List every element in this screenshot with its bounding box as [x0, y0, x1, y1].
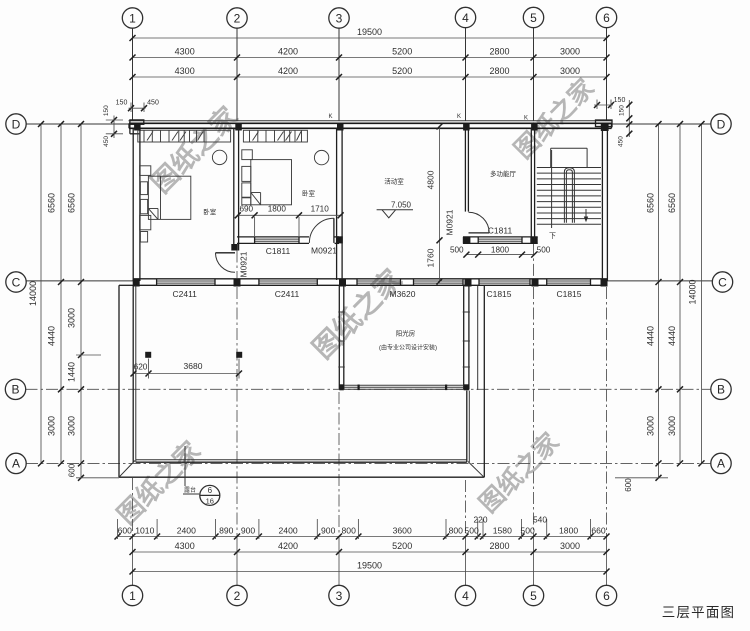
column at grid 3/D [337, 124, 344, 131]
grid line 3 (bottom, dash-dot) [338, 392, 340, 537]
window C2411 #1 on wall C [157, 280, 215, 282]
grid bubble 1 bottom [122, 585, 142, 605]
bedside cabinets bedroom 1 [140, 166, 151, 176]
svg-text:3000: 3000 [560, 66, 580, 76]
wall at grid 5 (hall / stairs) [530, 128, 532, 243]
svg-text:1440: 1440 [67, 362, 77, 382]
svg-text:6: 6 [603, 589, 610, 603]
svg-text:1580: 1580 [493, 526, 512, 536]
column at grid 4/D [463, 124, 470, 131]
svg-text:阳光房: 阳光房 [396, 329, 416, 338]
wall at grid 1 (left exterior) [132, 128, 134, 281]
svg-text:600: 600 [68, 463, 77, 477]
terrace corner miter SE [468, 462, 484, 478]
svg-text:3600: 3600 [393, 526, 412, 536]
svg-text:6560: 6560 [67, 193, 77, 213]
svg-text:三层平面图: 三层平面图 [662, 605, 736, 620]
svg-text:1710: 1710 [311, 205, 330, 214]
svg-text:卧室: 卧室 [203, 207, 217, 216]
svg-text:1800: 1800 [491, 245, 510, 254]
svg-text:A: A [717, 457, 725, 471]
svg-text:4440: 4440 [646, 326, 656, 346]
grid bubble 3 bottom [329, 585, 349, 605]
svg-text:C: C [718, 275, 727, 289]
svg-text:M0921: M0921 [445, 209, 455, 235]
svg-text:3000: 3000 [67, 308, 77, 328]
svg-text:4440: 4440 [667, 326, 677, 346]
svg-text:C: C [12, 275, 21, 289]
svg-text:4200: 4200 [278, 541, 298, 551]
svg-text:2800: 2800 [489, 66, 509, 76]
grid bubble 5 top [523, 7, 543, 27]
level mark 7.050 activity room [377, 209, 413, 211]
svg-text:890: 890 [219, 526, 234, 536]
top-right offset dim 150 horizontal [594, 104, 613, 106]
svg-text:3000: 3000 [560, 47, 580, 57]
left dim chain 6560/3000/1440/3000/600 [80, 124, 82, 478]
wall at grid 3 [336, 128, 338, 280]
grid line 2 (bottom, dash-dot) [236, 251, 238, 279]
grid line 1 (top stem) [132, 28, 134, 121]
grid bubble B right [711, 379, 731, 399]
svg-text:3680: 3680 [184, 361, 203, 371]
svg-text:2: 2 [234, 589, 241, 603]
window C1811 bedroom 2 [255, 238, 299, 240]
svg-text:B: B [717, 383, 725, 397]
svg-text:4300: 4300 [175, 66, 195, 76]
svg-text:5: 5 [530, 589, 537, 603]
sunroom south window band [344, 384, 464, 386]
stair direction line [551, 150, 553, 228]
svg-text:800: 800 [342, 526, 357, 536]
terrace parapet top stub [119, 284, 133, 286]
grid line 3 (top stem) [338, 28, 340, 121]
svg-text:1: 1 [129, 589, 136, 603]
window M3620 panel 2 on wall C [414, 280, 464, 282]
grid line 6 (top stem) [606, 28, 608, 121]
grid line 6 (bottom, dash-dot) [606, 287, 608, 537]
svg-text:500: 500 [537, 245, 551, 254]
bottom dim extension lines row1 [117, 519, 119, 539]
left dim extension at y355 [76, 354, 101, 356]
svg-text:6560: 6560 [47, 193, 57, 213]
svg-text:2800: 2800 [489, 47, 509, 57]
stair upper landing outline [551, 147, 587, 149]
stair treads [537, 167, 601, 169]
sunroom west wall [338, 285, 340, 390]
column at grid 3/C [339, 279, 346, 286]
svg-text:2800: 2800 [489, 541, 509, 551]
window M3620 panel 1 on wall C [357, 280, 401, 282]
svg-text:D: D [717, 117, 726, 131]
svg-text:6: 6 [208, 486, 213, 495]
grid bubble D left [6, 114, 26, 134]
grid bubble 3 top [329, 8, 349, 28]
svg-text:500: 500 [450, 245, 464, 254]
svg-text:900: 900 [321, 526, 336, 536]
grid line 2 (top stem) [236, 28, 238, 121]
grid bubble D right [711, 114, 731, 134]
svg-text:M0921: M0921 [311, 246, 337, 256]
grid line D (horizontal) [26, 123, 129, 125]
window C2411 #2 on wall C [259, 280, 317, 282]
svg-text:1800: 1800 [559, 526, 578, 536]
right dim chain 6560/4440/3000 [679, 124, 681, 463]
wall C (south wall of main block) [133, 278, 608, 280]
svg-text:540: 540 [533, 515, 547, 525]
grid bubble 6 top [596, 7, 616, 27]
svg-text:150: 150 [618, 105, 625, 116]
svg-text:220: 220 [474, 515, 488, 525]
svg-text:4440: 4440 [47, 326, 57, 346]
svg-text:K: K [328, 114, 332, 120]
svg-text:3000: 3000 [67, 416, 77, 436]
svg-text:5200: 5200 [392, 47, 412, 57]
sunroom mullion posts [358, 385, 360, 391]
terrace column 2 [236, 352, 242, 358]
wall D right end return [596, 120, 613, 127]
svg-text:3: 3 [336, 589, 343, 603]
svg-text:M0921: M0921 [239, 251, 249, 277]
svg-text:6560: 6560 [667, 193, 677, 213]
dim chain 690/1800/1710 bedroom 2 [238, 214, 341, 216]
svg-text:1: 1 [129, 11, 136, 25]
bottom dimension row 2 line [133, 551, 607, 553]
svg-text:D: D [12, 117, 21, 131]
svg-text:4300: 4300 [175, 47, 195, 57]
svg-text:660: 660 [591, 526, 606, 536]
wall D left end return [130, 120, 144, 124]
grid bubble A right [711, 453, 731, 473]
wall at grid 6 (right exterior) [601, 128, 603, 281]
svg-text:450: 450 [618, 136, 625, 147]
dim chain 500/1800/500 hall [466, 254, 534, 256]
svg-text:3: 3 [336, 11, 343, 25]
right dim chain 6560/4440/3000/600 [658, 124, 660, 478]
sunroom wall mullion marks [338, 311, 345, 313]
terrace parapet south outer [119, 476, 484, 478]
sunroom corner post SE [464, 384, 469, 390]
top-left offset dim 150/450 vertical [113, 116, 115, 139]
wall D band [129, 122, 612, 124]
top dimension row 2 line [133, 57, 607, 59]
svg-text:3000: 3000 [646, 416, 656, 436]
grid bubble B left [5, 379, 25, 399]
column hall south-east [530, 237, 537, 244]
grid bubble 2 bottom [227, 585, 247, 605]
bed bedroom 2 [251, 160, 292, 205]
svg-text:600: 600 [118, 526, 133, 536]
terrace parapet east inner upper [477, 286, 479, 390]
svg-text:B: B [11, 383, 19, 397]
svg-text:7.050: 7.050 [391, 201, 412, 210]
svg-text:150: 150 [614, 97, 626, 104]
svg-text:5: 5 [530, 11, 537, 25]
svg-text:1760: 1760 [426, 248, 436, 267]
left dim chain 6560/4440/3000 [60, 124, 62, 463]
column at grid 1/C [133, 279, 140, 286]
terrace parapet south inner [136, 459, 467, 461]
svg-text:1010: 1010 [135, 526, 154, 536]
column hall south-west [463, 237, 471, 244]
bottom dimension row 1 line [118, 536, 607, 538]
wardrobe band bedroom 1 [138, 130, 231, 142]
svg-text:16: 16 [206, 497, 214, 506]
sunroom corner post SW [339, 384, 344, 390]
top dimension line 19500 [133, 37, 607, 39]
sunroom east wall [463, 285, 465, 390]
svg-text:450: 450 [147, 100, 159, 107]
column at grid 6/D [601, 124, 609, 131]
svg-text:600: 600 [624, 478, 633, 492]
grid bubble 1 top [122, 8, 142, 28]
svg-text:150: 150 [116, 100, 128, 107]
svg-text:2400: 2400 [177, 526, 196, 536]
terrace parapet east outer [483, 286, 485, 477]
top-right offset dims 150/450 vertical [628, 100, 630, 137]
stool bedroom 1 [212, 150, 226, 164]
grid bubble 5 bottom [523, 585, 543, 605]
door M0921 bedroom 2 [333, 218, 335, 243]
grid line 4 (bottom, dash-dot) [465, 480, 467, 537]
terrace corner miter SW [119, 461, 135, 478]
column at grid 5/C [532, 279, 539, 286]
grid bubble 2 top [227, 8, 247, 28]
svg-text:14000: 14000 [28, 281, 38, 306]
column at grid 1/D [134, 124, 141, 131]
hall south wall [463, 236, 538, 238]
svg-text:露台: 露台 [184, 486, 196, 494]
svg-text:卧室: 卧室 [302, 189, 316, 198]
svg-text:620: 620 [134, 362, 148, 372]
wardrobe band bedroom 2 [243, 130, 307, 142]
svg-text:450: 450 [103, 136, 110, 147]
left dim extension at y477.8 [76, 477, 119, 479]
svg-text:4: 4 [462, 11, 469, 25]
stair railing [564, 168, 574, 223]
svg-text:4800: 4800 [426, 170, 436, 189]
right dim extension at y477.8 [615, 477, 668, 479]
svg-text:150: 150 [103, 105, 110, 116]
svg-text:4300: 4300 [175, 541, 195, 551]
top-left offset dim 150/450 horizontal [129, 107, 146, 109]
svg-text:C2411: C2411 [275, 289, 300, 299]
svg-text:C2411: C2411 [172, 289, 197, 299]
svg-text:C1811: C1811 [488, 226, 513, 236]
grid bubble A left [6, 453, 26, 473]
grid bubble 4 top [455, 7, 475, 27]
door M0921 hall [469, 232, 490, 234]
grid line 5 (bottom, dash-dot) [533, 243, 535, 278]
top dimension row 3 line [133, 76, 607, 78]
bed bedroom 1 [148, 176, 190, 219]
dim chain 4800/1760 activity room [439, 127, 441, 282]
column at grid 5/D [531, 124, 538, 131]
svg-text:1800: 1800 [268, 205, 287, 214]
column at grid 4/C [465, 279, 472, 286]
window C1811 hall [478, 238, 522, 240]
svg-text:3000: 3000 [560, 541, 580, 551]
svg-text:800: 800 [449, 526, 464, 536]
column at grid 2/C [234, 279, 241, 286]
column at grid 2/D [235, 124, 242, 131]
svg-text:900: 900 [241, 526, 256, 536]
svg-text:2: 2 [234, 11, 241, 25]
grid bubble 4 bottom [455, 585, 475, 605]
svg-text:C1815: C1815 [486, 289, 511, 299]
door M0921 bedroom 1 [216, 252, 236, 254]
column at grid 3 / bedroom wall junction [336, 236, 343, 243]
stair direction arrow [585, 209, 587, 220]
svg-text:19500: 19500 [357, 561, 382, 571]
window C1815 #2 on wall C [547, 280, 591, 282]
svg-text:C1811: C1811 [266, 246, 291, 256]
dim chain 620/3680 terrace [134, 373, 240, 375]
svg-text:3000: 3000 [47, 416, 57, 436]
terrace detail symbol 露台 6/16 [184, 446, 186, 486]
svg-text:2400: 2400 [279, 526, 298, 536]
terrace parapet west outer [118, 285, 120, 477]
stool bedroom 2 [314, 150, 328, 164]
left dim chain total 14000 [40, 124, 42, 463]
column at grid 2 lower end [231, 244, 238, 251]
wall at grid 2 (between bedrooms) [233, 128, 235, 250]
terrace parapet west inner [132, 286, 134, 463]
svg-text:500: 500 [464, 526, 479, 536]
svg-text:4200: 4200 [278, 47, 298, 57]
wall at grid 4 (activity room / hall) [464, 128, 466, 211]
wall D outer face line [129, 120, 613, 122]
grid bubble C left [6, 272, 26, 292]
svg-text:6560: 6560 [646, 193, 656, 213]
grid line 5 (top stem) [533, 28, 535, 121]
svg-text:(由专业公司设计安装): (由专业公司设计安装) [379, 344, 437, 352]
bedside cabinets bedroom 2 [242, 150, 253, 160]
svg-text:4200: 4200 [278, 66, 298, 76]
svg-text:500: 500 [520, 526, 535, 536]
svg-text:690: 690 [239, 205, 253, 214]
svg-text:3000: 3000 [667, 416, 677, 436]
svg-text:多功能厅: 多功能厅 [490, 169, 517, 178]
grid line 1 (bottom, dash-dot) [132, 478, 134, 537]
window C1815 #1 on wall C [479, 280, 530, 282]
svg-text:5200: 5200 [392, 66, 412, 76]
grid bubble C right [712, 272, 732, 292]
svg-text:6: 6 [603, 11, 610, 25]
svg-text:C1815: C1815 [556, 289, 581, 299]
column at grid 6/C [601, 279, 608, 286]
grid line A (horizontal, dash-dot) [26, 462, 711, 464]
grid line B (horizontal, dash-dot) [26, 388, 712, 390]
svg-text:5200: 5200 [392, 541, 412, 551]
svg-text:K: K [457, 114, 461, 120]
svg-text:下: 下 [549, 232, 556, 240]
grid line C (horizontal) [26, 280, 133, 282]
terrace parapet east inner lower [466, 391, 468, 463]
grid bubble 6 bottom [596, 585, 616, 605]
right dim chain total 14000 [701, 124, 703, 463]
bottom dimension line 19500 [133, 571, 607, 573]
svg-text:活动室: 活动室 [384, 177, 404, 186]
terrace column 1 [145, 352, 151, 358]
grid line 4 (top stem) [465, 28, 467, 121]
bedroom 2 south wall [237, 236, 309, 238]
svg-text:4: 4 [462, 589, 469, 603]
svg-text:M3620: M3620 [390, 289, 416, 299]
svg-text:19500: 19500 [357, 27, 382, 37]
svg-text:A: A [12, 457, 20, 471]
svg-text:14000: 14000 [688, 279, 698, 304]
